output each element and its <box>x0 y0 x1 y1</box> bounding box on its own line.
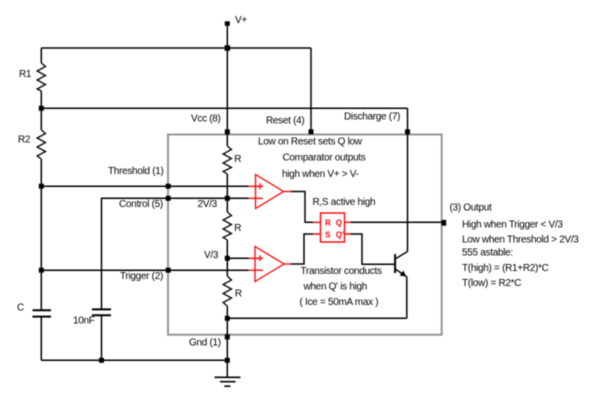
svg-text:Discharge (7): Discharge (7) <box>344 112 400 123</box>
wire comparator1 output to R input <box>291 192 313 223</box>
555 block outline box <box>168 135 442 335</box>
junction gnd rail <box>225 358 230 363</box>
svg-text:when Q' is high: when Q' is high <box>303 281 368 292</box>
resistor R internal middle <box>223 212 231 240</box>
wire top rail V+ <box>41 47 311 49</box>
transistor Q1 discharge <box>395 252 407 319</box>
resistor R internal top <box>223 146 231 174</box>
junction V/3 node <box>225 256 230 261</box>
svg-text:2V/3: 2V/3 <box>198 199 218 210</box>
wire discharge drop to collector <box>407 108 409 251</box>
junction 10nF bottom <box>99 358 104 363</box>
pin Output (3) terminal <box>442 220 447 226</box>
svg-text:S: S <box>325 231 331 240</box>
op-amp U2 trigger comparator <box>249 247 292 282</box>
wire emitter to gnd node <box>227 317 406 319</box>
wire discharge rail <box>41 107 407 109</box>
svg-text:Control (5): Control (5) <box>119 199 163 210</box>
pin Discharge (7) square <box>405 129 410 134</box>
svg-text:555 astable:: 555 astable: <box>462 248 513 259</box>
svg-text:R: R <box>234 154 241 165</box>
wire Q output to pin 3 <box>351 221 443 223</box>
wire left column segments <box>41 48 227 360</box>
junction divider bottom node <box>225 316 230 321</box>
wire Q' to transistor base <box>351 234 395 264</box>
svg-text:R,S active high: R,S active high <box>313 197 376 208</box>
svg-text:R1: R1 <box>19 69 32 80</box>
junction R1-R2 discharge node <box>39 106 44 111</box>
svg-text:V+: V+ <box>235 15 247 26</box>
pin Reset (4) square <box>309 129 314 134</box>
svg-text:( Ice = 50mA max ): ( Ice = 50mA max ) <box>300 297 379 308</box>
svg-text:R: R <box>325 219 331 228</box>
junction trigger node <box>39 268 44 273</box>
svg-text:(3) Output: (3) Output <box>450 203 493 214</box>
pin Threshold (1) square <box>166 184 171 189</box>
op-amp U1 threshold comparator <box>249 175 292 209</box>
svg-text:Transistor conducts: Transistor conducts <box>301 266 382 277</box>
svg-text:10nF: 10nF <box>73 316 95 327</box>
svg-text:R: R <box>235 289 242 300</box>
pin Vcc (8) square <box>225 129 230 134</box>
wire V+ vertical to Vcc pin <box>226 25 228 134</box>
pin Trigger (2) square <box>166 268 171 273</box>
resistor R1 <box>37 63 45 91</box>
wire trigger <box>41 269 248 271</box>
svg-text:Threshold (1): Threshold (1) <box>108 166 164 177</box>
svg-text:T(low) = R2*C: T(low) = R2*C <box>462 278 521 289</box>
svg-text:Low when Threshold > 2V/3: Low when Threshold > 2V/3 <box>462 235 579 246</box>
svg-text:T(high) = (R1+R2)*C: T(high) = (R1+R2)*C <box>462 263 549 274</box>
ground symbol <box>215 377 241 386</box>
flip-flop U3 RS latch <box>313 213 351 242</box>
svg-text:V/3: V/3 <box>204 250 219 261</box>
junction threshold node <box>39 184 44 189</box>
wire threshold <box>41 185 248 187</box>
junction 2V/3 node <box>225 196 230 201</box>
capacitor C plates <box>33 310 52 316</box>
svg-text:Q: Q <box>336 219 342 228</box>
svg-text:Low on Reset sets Q low: Low on Reset sets Q low <box>258 137 363 148</box>
capacitor 10nF plates <box>92 309 111 315</box>
svg-text:high when V+ > V-: high when V+ > V- <box>282 169 359 180</box>
wire V/3 to comparator <box>227 257 248 259</box>
svg-text:R: R <box>234 223 241 234</box>
svg-text:Reset (4): Reset (4) <box>266 116 304 127</box>
svg-text:Gnd (1): Gnd (1) <box>189 338 221 349</box>
resistor R2 <box>37 130 45 159</box>
wire gnd stem <box>226 360 228 377</box>
terminal V+ <box>225 21 230 26</box>
pin Control (5) square <box>166 196 171 201</box>
wire reset drop <box>310 48 312 134</box>
divider vertical segments <box>226 134 228 360</box>
svg-text:Vcc (8): Vcc (8) <box>191 114 221 125</box>
svg-text:Comparator outputs: Comparator outputs <box>283 153 366 164</box>
junction top rail / V+ <box>225 45 231 51</box>
wire comparator2 output to S input <box>291 234 313 264</box>
svg-text:C: C <box>17 303 24 314</box>
pin Gnd (1) square <box>225 334 230 339</box>
svg-text:Q': Q' <box>336 231 344 240</box>
wire control <box>102 198 249 360</box>
svg-text:R2: R2 <box>18 135 31 146</box>
resistor R internal bottom <box>223 276 231 306</box>
svg-text:High when Trigger < V/3: High when Trigger < V/3 <box>462 219 563 230</box>
svg-text:Trigger (2): Trigger (2) <box>120 271 163 282</box>
